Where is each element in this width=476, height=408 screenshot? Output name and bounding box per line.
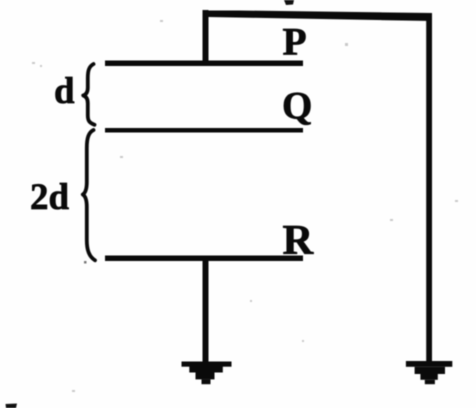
svg-text:Q: Q bbox=[282, 85, 312, 128]
svg-text:P: P bbox=[283, 20, 307, 64]
svg-text:2d: 2d bbox=[30, 177, 70, 218]
svg-text:R: R bbox=[283, 217, 315, 264]
svg-text:d: d bbox=[54, 71, 75, 112]
